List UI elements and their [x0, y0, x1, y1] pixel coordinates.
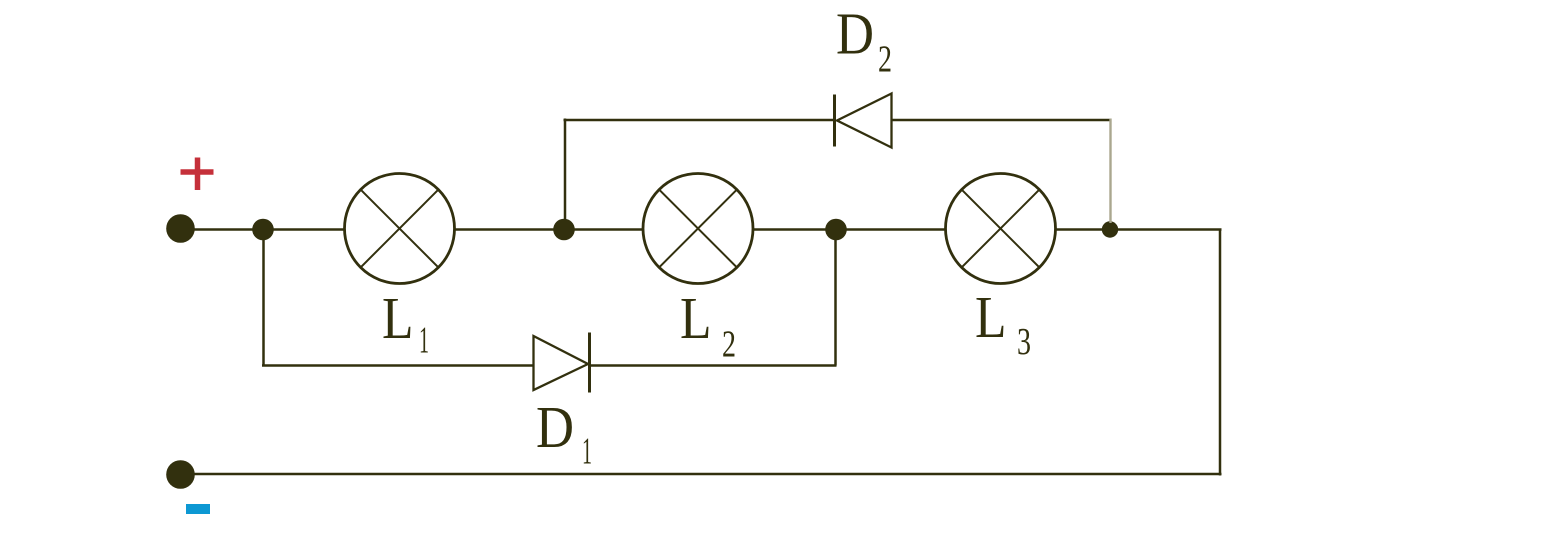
- diode D2: [835, 94, 892, 148]
- svg-text:L: L: [382, 285, 414, 351]
- svg-text:L: L: [975, 284, 1007, 350]
- wire: riser up to node C: [834, 230, 837, 366]
- svg-text:1: 1: [582, 431, 592, 473]
- wire: lamp L3 to node D: [1055, 228, 1111, 231]
- svg-text:L: L: [680, 285, 712, 351]
- wire: D1 cathode to vertical riser: [590, 364, 837, 367]
- lamp L2: [643, 174, 753, 284]
- minus sign (negative supply marker): [186, 504, 210, 514]
- plus sign (positive supply marker): [181, 158, 214, 191]
- svg-text:1: 1: [419, 320, 429, 362]
- svg-text:D: D: [536, 394, 574, 460]
- node D (junction right of L3): [1102, 221, 1118, 237]
- wire: light vertical down to node D: [1109, 119, 1111, 224]
- wire: + terminal to node A: [180, 228, 263, 231]
- wire: node D to right corner: [1110, 228, 1222, 231]
- wire: lamp L1 to node B: [454, 228, 564, 231]
- wire: right vertical drop: [1219, 230, 1222, 476]
- positive terminal node: [166, 214, 195, 243]
- wire: upper branch horizontal to D2 cathode: [564, 119, 835, 122]
- wire: node B to lamp L2: [564, 228, 643, 231]
- wire: D2 anode right horizontal: [892, 119, 1111, 122]
- svg-text:D: D: [836, 1, 874, 67]
- svg-text:2: 2: [722, 324, 736, 366]
- wire: lamp L2 to node C: [753, 228, 836, 231]
- label L3: [975, 284, 1031, 363]
- node A (junction left of L1): [252, 219, 274, 241]
- negative terminal node: [166, 460, 195, 489]
- label L2: [680, 285, 736, 366]
- node B (junction left of L2): [553, 219, 575, 241]
- wire: node B up (D2 branch): [564, 119, 567, 230]
- node C (junction right of L2): [825, 219, 847, 241]
- lamp L3: [946, 174, 1056, 284]
- wire: node A to lamp L1: [263, 228, 345, 231]
- wire: node C to lamp L3: [836, 228, 946, 231]
- svg-text:2: 2: [878, 39, 892, 81]
- wire: node A down (D1 branch): [262, 230, 265, 366]
- label D1: [536, 394, 592, 473]
- lamp L1: [345, 174, 455, 284]
- svg-text:3: 3: [1017, 321, 1031, 363]
- label L1: [382, 285, 429, 362]
- label D2: [836, 1, 892, 81]
- wire: bottom return to - terminal: [180, 473, 1222, 476]
- wire: lower branch left horizontal to D1 anode: [262, 364, 534, 367]
- diode D1: [534, 333, 590, 393]
